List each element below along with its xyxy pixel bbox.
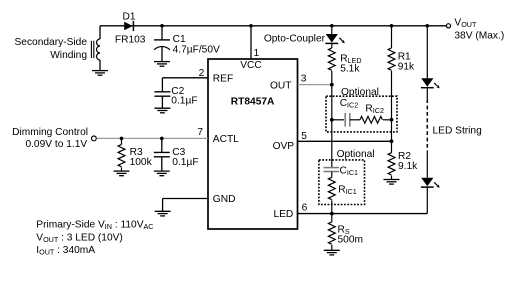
svg-text:0.1µF: 0.1µF	[172, 157, 198, 168]
svg-text:ACTL: ACTL	[213, 134, 239, 145]
svg-text:VCC: VCC	[240, 60, 262, 71]
svg-text:D1: D1	[123, 11, 136, 22]
svg-text:0.09V to 1.1V: 0.09V to 1.1V	[25, 139, 87, 150]
svg-text:3: 3	[301, 74, 307, 85]
svg-text:VOUT: VOUT	[454, 17, 477, 29]
svg-text:9.1k: 9.1k	[398, 161, 418, 172]
svg-text:REF: REF	[213, 73, 233, 84]
svg-text:5.1k: 5.1k	[340, 64, 360, 75]
svg-text:FR103: FR103	[115, 34, 146, 45]
svg-text:0.1µF: 0.1µF	[171, 96, 197, 107]
svg-text:OVP: OVP	[273, 141, 295, 152]
svg-text:Optional: Optional	[337, 149, 375, 160]
svg-text:Winding: Winding	[50, 50, 87, 61]
svg-text:OUT: OUT	[270, 81, 292, 92]
svg-text:500m: 500m	[338, 234, 363, 245]
svg-text:Opto-Coupler: Opto-Coupler	[264, 34, 326, 45]
svg-text:4.7µF/50V: 4.7µF/50V	[173, 45, 220, 56]
svg-text:Secondary-Side: Secondary-Side	[15, 37, 88, 48]
svg-text:CIC2: CIC2	[340, 98, 359, 110]
svg-text:RIC1: RIC1	[338, 184, 357, 196]
svg-text:RIC2: RIC2	[365, 103, 384, 115]
svg-text:Dimming Control: Dimming Control	[12, 127, 88, 138]
svg-text:2: 2	[199, 68, 205, 79]
svg-text:C1: C1	[173, 34, 186, 45]
svg-text:Optional: Optional	[341, 87, 379, 98]
svg-text:38V (Max.): 38V (Max.)	[454, 31, 504, 42]
svg-text:CIC1: CIC1	[340, 165, 359, 177]
svg-text:Primary-Side VIN : 110VAC: Primary-Side VIN : 110VAC	[36, 220, 153, 232]
svg-text:GND: GND	[213, 194, 236, 205]
svg-text:1: 1	[254, 48, 260, 59]
svg-text:91k: 91k	[398, 62, 415, 73]
svg-text:5: 5	[301, 131, 307, 142]
svg-text:LED: LED	[273, 209, 293, 220]
svg-text:100k: 100k	[130, 157, 153, 168]
svg-text:IOUT : 340mA: IOUT : 340mA	[36, 245, 95, 257]
svg-text:VOUT : 3 LED (10V): VOUT : 3 LED (10V)	[36, 232, 123, 244]
svg-text:7: 7	[197, 127, 203, 138]
svg-text:RT8457A: RT8457A	[231, 96, 275, 107]
svg-text:LED String: LED String	[433, 126, 483, 137]
svg-text:6: 6	[302, 203, 308, 214]
